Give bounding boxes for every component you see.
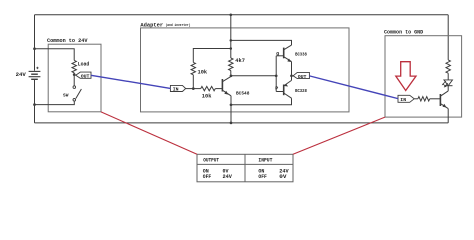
wire right drop to resistor — [447, 15, 449, 60]
svg-text:4k7: 4k7 — [235, 58, 245, 64]
svg-text:OUTPUT: OUTPUT — [203, 157, 220, 163]
wire IN tag to resistor — [414, 98, 418, 100]
wire left rail (battery top) — [34, 15, 36, 71]
resistor base right box — [418, 97, 430, 101]
svg-text:10k: 10k — [202, 93, 212, 99]
transistor Q1 BC548 — [221, 79, 223, 92]
node emitter-GND T — [230, 103, 233, 106]
wire Load to node — [73, 73, 75, 75]
red indicator arrow — [396, 62, 416, 91]
node supply upper T — [230, 39, 233, 42]
wire supply to BC338 collector — [231, 40, 292, 45]
svg-text:24V: 24V — [16, 71, 27, 78]
svg-text:24V: 24V — [223, 174, 233, 180]
wire BC548 emitter down — [230, 96, 232, 105]
node supply lower T — [230, 47, 233, 50]
node battery-switch — [33, 103, 36, 106]
node base tee — [275, 74, 278, 77]
wire LED to collector — [447, 86, 449, 91]
wire IN tag to node — [186, 88, 194, 90]
resistor Load — [72, 60, 76, 72]
tag OUT left box — [76, 72, 91, 78]
box Adapter — [141, 28, 350, 112]
wire BC338 emitter to out node — [291, 62, 293, 76]
blue wire OUT to IN (right) — [309, 76, 398, 99]
node top rail tap — [229, 13, 232, 16]
node left-rail tap — [33, 47, 36, 50]
svg-text:OFF: OFF — [203, 174, 211, 180]
svg-text:Common to GND: Common to GND — [384, 30, 423, 36]
node IN-10k junction — [192, 87, 195, 90]
node output push-pull — [290, 74, 293, 77]
svg-text:10k: 10k — [198, 70, 208, 76]
node BC548 collector — [230, 74, 233, 77]
red pointer line right — [293, 117, 385, 154]
svg-text:Q: Q — [276, 51, 279, 57]
svg-text:IN: IN — [400, 97, 406, 103]
table truth box — [197, 154, 293, 182]
svg-text:BC338: BC338 — [295, 52, 307, 58]
svg-text:BC328: BC328 — [295, 88, 307, 94]
node bottom rail tap — [230, 122, 233, 125]
svg-text:0V: 0V — [279, 174, 287, 180]
svg-text:INPUT: INPUT — [258, 157, 273, 163]
wire 10k to IN node — [192, 75, 194, 89]
wire emitter to BC328 collector — [231, 98, 292, 105]
node OUT-left — [73, 73, 76, 76]
wire top rail +24V — [35, 14, 449, 16]
svg-text:P: P — [275, 86, 278, 92]
svg-text:IN: IN — [173, 87, 179, 93]
wire supply drop — [230, 15, 232, 58]
tag IN right box — [398, 95, 414, 102]
switch SW — [73, 86, 76, 89]
svg-text:OFF: OFF — [258, 174, 266, 180]
svg-text:BC548: BC548 — [236, 90, 250, 96]
wire resistor to LED — [447, 73, 449, 80]
LED D1 — [444, 80, 453, 86]
box Common to GND — [385, 36, 462, 117]
transistor Q3 BC328 — [283, 85, 285, 96]
wire resistor to base — [430, 98, 441, 100]
resistor 10k series — [201, 86, 216, 90]
table divider vertical — [244, 154, 246, 182]
battery plus mark — [36, 67, 38, 69]
wire base line vertical — [275, 56, 277, 92]
blue wire OUT to IN (left) — [91, 75, 170, 88]
tag IN middle box — [170, 85, 185, 91]
wire base to BC328 — [276, 91, 284, 93]
wire emitter to bottom rail — [447, 109, 449, 123]
svg-text:OUT: OUT — [298, 74, 307, 80]
resistor 4k7 — [229, 58, 233, 71]
battery B1 24V — [29, 70, 41, 72]
wire bottom rail GND — [35, 122, 449, 124]
svg-text:(and inverter): (and inverter) — [166, 23, 191, 28]
transistor Q2 BC338 — [283, 48, 285, 59]
wire collector node to bases — [231, 75, 276, 77]
wire left rail (battery bottom) — [34, 79, 36, 123]
transistor Q4 right box — [439, 94, 441, 106]
tag OUT middle box — [293, 72, 309, 78]
svg-text:SW: SW — [63, 92, 69, 98]
wire node to switch — [73, 75, 75, 86]
wire rail to Load — [35, 49, 75, 61]
resistor 10k pullup — [191, 62, 195, 74]
table header separator — [197, 163, 293, 165]
svg-text:OUT: OUT — [81, 74, 90, 80]
wire node to 10k series — [193, 88, 200, 90]
resistor top right box — [446, 60, 450, 73]
wire switch to battery — [35, 101, 75, 105]
svg-text:Load: Load — [78, 62, 90, 68]
wire supply to 10k top — [193, 49, 231, 63]
box Common to 24V — [48, 44, 101, 112]
svg-text:Adapter: Adapter — [140, 22, 163, 28]
svg-text:Common to 24V: Common to 24V — [47, 38, 88, 44]
wire 4k7 to collector node — [230, 71, 232, 77]
wire base to BC338 — [276, 55, 284, 57]
red pointer line left — [101, 112, 197, 154]
wire 10k to BC548 base — [215, 88, 222, 90]
wire emitter to bottom rail — [230, 105, 232, 123]
wire BC328 emitter to out node — [291, 76, 293, 81]
